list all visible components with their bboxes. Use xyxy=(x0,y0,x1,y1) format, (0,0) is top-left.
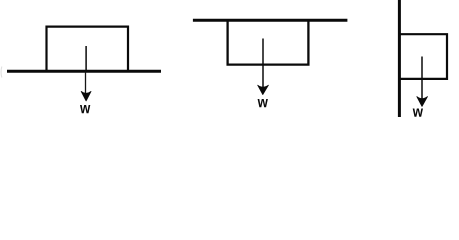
figure 1: label w xyxy=(80,105,90,113)
figure 1: block on table xyxy=(47,27,129,71)
figure 3: weight arrowhead xyxy=(417,97,428,107)
figure 2: hanging block xyxy=(228,20,309,64)
figure 1: weight arrow shaft lower xyxy=(85,72,87,97)
figure 3: weight arrow shaft xyxy=(421,57,423,106)
figure 2: label w xyxy=(258,99,268,107)
figure 3: block on wall xyxy=(399,34,447,79)
figure 1: ground line xyxy=(7,70,161,73)
figure 1: weight arrowhead xyxy=(81,91,91,101)
figure 3: wall line xyxy=(398,0,401,117)
figure 1: weight arrow shaft xyxy=(85,46,87,72)
figure 2: weight arrowhead xyxy=(258,85,269,94)
figure 2: weight arrow shaft xyxy=(262,39,264,94)
figure 2: ceiling line xyxy=(193,19,348,22)
figure 3: label w xyxy=(413,108,423,116)
faint edge artifact left xyxy=(0,67,3,78)
